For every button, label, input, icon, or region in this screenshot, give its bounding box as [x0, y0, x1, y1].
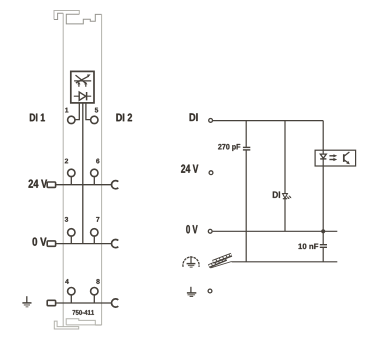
- module top-left hook inner: [54, 13, 63, 19]
- terminal circle DI: [209, 119, 213, 123]
- wire center vertical: [82, 103, 84, 244]
- optocoupler light arrow 2: [329, 159, 334, 161]
- wire shield rail: [232, 261, 338, 263]
- protective earth symbol: [187, 287, 196, 297]
- label 0 V left: [33, 238, 47, 246]
- pin 6 label: [96, 159, 99, 164]
- label DI 1: [30, 114, 45, 122]
- label 10 nF: [299, 244, 319, 250]
- wire capacitor C1 branch upper: [245, 121, 247, 147]
- optocoupler LED triangle: [320, 154, 326, 158]
- module bottom foot: [54, 321, 78, 329]
- optocoupler LED cathode bar: [320, 158, 326, 160]
- terminal 4: [68, 288, 75, 295]
- stub terminal 6: [93, 177, 95, 185]
- label DI mid: [273, 192, 280, 198]
- wire DI rail: [213, 120, 323, 122]
- diode symbol cathode bar: [86, 92, 88, 100]
- optocoupler light arrow 1: [329, 155, 334, 157]
- wire row 24V: [56, 184, 112, 186]
- terminal 6: [91, 169, 98, 176]
- clamp contact row 4: [112, 299, 119, 307]
- stub terminal 3: [70, 236, 72, 243]
- module left edge: [62, 13, 64, 326]
- terminal 7: [91, 229, 98, 236]
- LED indicator arrow head: [87, 74, 91, 77]
- pin 4 label: [65, 279, 69, 284]
- module top cap inner profile: [66, 14, 101, 24]
- label 24 V left: [29, 180, 48, 188]
- module bottom strip base line: [66, 324, 101, 326]
- pin 2 label: [65, 159, 68, 164]
- terminal 3: [68, 229, 75, 236]
- wire row 0V: [56, 243, 112, 245]
- junction node: [321, 229, 325, 233]
- pin 8 label: [96, 279, 99, 284]
- terminal circle PE: [208, 289, 212, 293]
- LED indicator diagonal: [76, 75, 86, 83]
- pin 5 label: [95, 108, 98, 113]
- diode symbol triangle: [79, 92, 86, 100]
- LED box U1: [71, 71, 94, 103]
- label 24 V right: [181, 165, 198, 173]
- capacitor C2 10nF: [320, 245, 327, 248]
- label 270 pF: [218, 144, 240, 151]
- wire optocoupler branch lower: [322, 166, 324, 244]
- rail contact wedge symbol: [209, 254, 232, 268]
- wire LED box to terminal 1: [75, 103, 79, 120]
- module right edge: [101, 14, 103, 325]
- phototransistor emitter arrow: [346, 161, 350, 164]
- stub terminal 8: [93, 295, 95, 303]
- terminal circle 24V: [209, 171, 213, 175]
- capacitor C1 270pF: [243, 147, 250, 150]
- functional earth dome symbol: [183, 256, 199, 268]
- pin 1 label: [65, 108, 68, 113]
- terminal 8: [91, 288, 98, 295]
- wire LED box to terminal 5: [86, 103, 91, 120]
- connector lug row 0V: [47, 241, 55, 246]
- clamp contact row 0V: [112, 239, 119, 247]
- wire LED branch: [284, 121, 286, 232]
- terminal circle 0V: [208, 229, 212, 233]
- wire capacitor C1 branch lower: [245, 150, 247, 261]
- terminal 5: [91, 116, 98, 123]
- label DI right: [190, 113, 198, 121]
- wire optocoupler branch upper: [322, 121, 324, 151]
- clamp contact row 24V: [112, 181, 119, 189]
- pin 7 label: [96, 217, 99, 222]
- earth symbol row 4 label: [22, 296, 31, 307]
- label 0 V right: [186, 225, 197, 233]
- optocoupler phototransistor: [344, 152, 350, 163]
- module bottom inner strip: [66, 319, 95, 325]
- label DI 2: [116, 114, 132, 122]
- diode symbol line in box: [74, 95, 91, 97]
- connector lug row 24V: [47, 182, 55, 187]
- pin 3 label: [65, 217, 68, 222]
- LED indicator arrow shaft: [76, 76, 89, 83]
- label 750-411: [73, 310, 95, 315]
- wire 0V rail: [213, 230, 338, 232]
- stub terminal 4: [70, 295, 72, 303]
- module body fill: [63, 13, 101, 326]
- LED indicator up arrow 2: [85, 84, 87, 87]
- wire row 4: [56, 302, 112, 304]
- LED indicator up arrow 1: [78, 84, 80, 87]
- optocoupler U2 box: [315, 150, 356, 166]
- terminal 1: [68, 116, 75, 123]
- wire through optocoupler box: [322, 150, 324, 166]
- LED DI indicator: [283, 194, 292, 200]
- LED indicator horizontal line: [74, 80, 91, 82]
- module top cap outline: [54, 11, 79, 20]
- wire below capacitor C2: [322, 248, 324, 262]
- stub terminal 7: [93, 236, 95, 243]
- connector lug row 4: [47, 300, 55, 305]
- stub terminal 2: [70, 177, 72, 185]
- terminal 2: [68, 169, 75, 176]
